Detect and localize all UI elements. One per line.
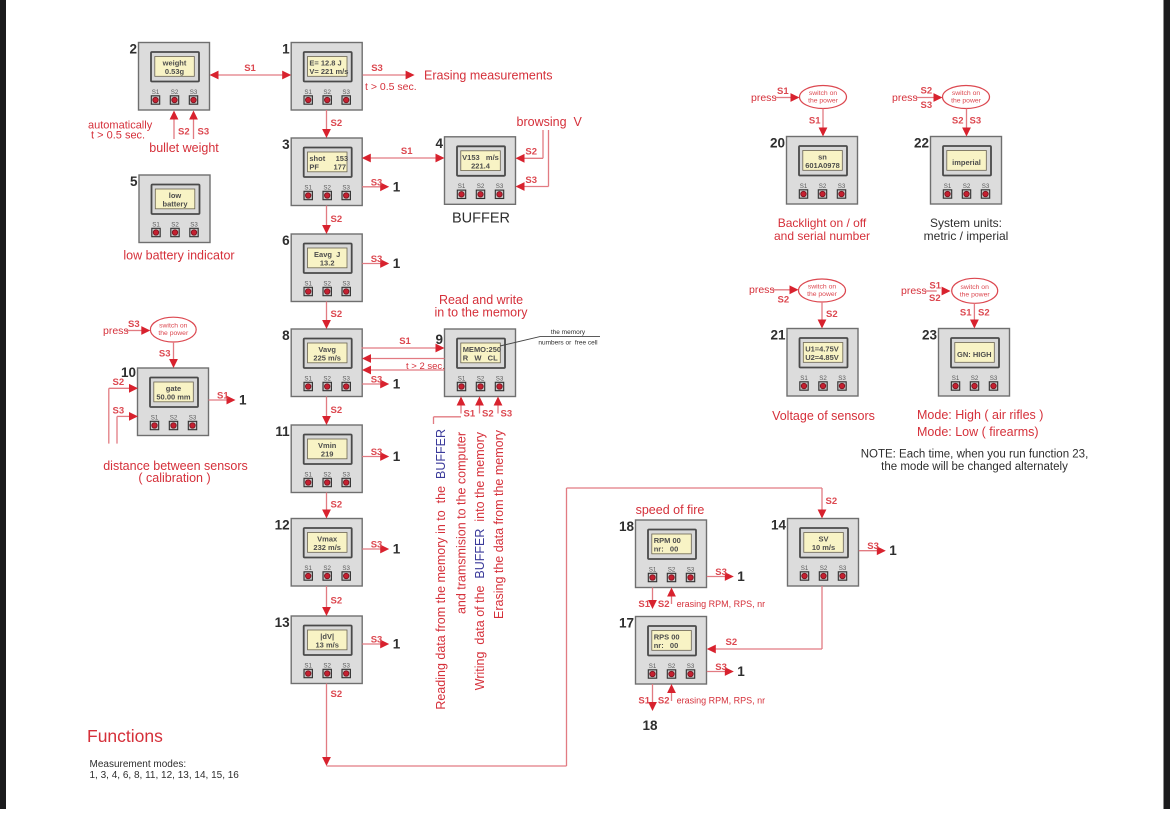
svg-text:1: 1 (282, 42, 290, 57)
svg-text:1: 1 (393, 637, 401, 652)
svg-text:S2: S2 (726, 637, 738, 648)
svg-text:press: press (103, 325, 129, 337)
svg-text:S1: S1 (464, 409, 476, 420)
svg-text:S1: S1 (638, 599, 650, 610)
svg-text:Reading data from the memory i: Reading data from the memory in to the B… (434, 429, 448, 710)
svg-text:S2: S2 (331, 214, 343, 225)
wire browsing S3 into device 4 (548, 130, 550, 187)
svg-text:the power: the power (960, 291, 991, 298)
svg-text:switch on: switch on (952, 90, 981, 97)
arrow S3 to 1 (362, 383, 381, 385)
svg-text:t > 0.5 sec.: t > 0.5 sec. (91, 130, 145, 142)
svg-text:1, 3, 4, 6, 8, 11, 12, 13, 14,: 1, 3, 4, 6, 8, 11, 12, 13, 14, 15, 16 (90, 770, 240, 781)
svg-text:press: press (901, 285, 927, 297)
svg-text:221.4: 221.4 (471, 161, 491, 170)
svg-text:Erasing measurements: Erasing measurements (424, 69, 553, 83)
svg-text:6: 6 (282, 233, 290, 248)
device 3: screen box (291, 138, 362, 206)
svg-text:21: 21 (770, 328, 786, 343)
svg-text:Mode: Low ( firearms): Mode: Low ( firearms) (917, 425, 1039, 439)
svg-text:1: 1 (393, 377, 401, 392)
arrow S3 to 1 (362, 643, 381, 645)
device 5: screen box (139, 175, 210, 243)
device 9: screen box (445, 329, 516, 397)
svg-text:S3: S3 (371, 375, 383, 386)
svg-text:S1: S1 (217, 391, 229, 402)
arrow S3 to 1 (362, 186, 381, 188)
svg-text:erasing RPM, RPS, nr: erasing RPM, RPS, nr (677, 696, 766, 706)
arrow S3 to 1 (859, 550, 878, 552)
svg-text:S2: S2 (331, 309, 343, 320)
arrow S2 into device 14 top (821, 488, 823, 511)
svg-text:8: 8 (282, 328, 290, 343)
svg-text:S2: S2 (525, 147, 537, 158)
svg-text:0.53g: 0.53g (165, 67, 185, 76)
svg-text:S3: S3 (371, 254, 383, 265)
svg-text:Mode: High ( air rifles ): Mode: High ( air rifles ) (917, 408, 1043, 422)
wire S2 device 14 down to 17 (821, 586, 823, 649)
device 12: screen box (291, 519, 362, 587)
wire S2 device 6 to 8 (326, 302, 328, 322)
ellipse switch on the power (20) (800, 86, 847, 109)
svg-text:t > 0.5 sec.: t > 0.5 sec. (365, 81, 417, 93)
svg-text:S3: S3 (921, 100, 933, 111)
arrow S3 erasing measurements (363, 74, 407, 76)
svg-text:System units:: System units: (930, 216, 1002, 230)
svg-text:S3: S3 (525, 175, 537, 186)
svg-text:switch on: switch on (808, 284, 837, 291)
svg-text:Voltage of sensors: Voltage of sensors (772, 409, 875, 423)
svg-text:numbers or free cell: numbers or free cell (538, 340, 598, 347)
svg-text:press: press (749, 284, 775, 296)
svg-text:219: 219 (321, 450, 334, 459)
svg-text:browsing V: browsing V (517, 115, 583, 129)
arrow S3 to 1 (707, 671, 726, 673)
wire S2 device 1 to 3 (326, 110, 328, 130)
svg-text:the power: the power (158, 330, 189, 337)
ellipse switch on the power (22) (943, 86, 990, 109)
svg-text:the power: the power (807, 291, 838, 298)
svg-text:switch on: switch on (159, 323, 188, 330)
svg-text:S2: S2 (331, 596, 343, 607)
svg-text:4: 4 (435, 136, 443, 151)
svg-text:V= 221 m/s: V= 221 m/s (309, 67, 348, 76)
ellipse switch on the power (23) (952, 278, 998, 303)
arrow device 9 to 8 (370, 358, 445, 360)
arrow S1 between device 2 and device 1 (218, 74, 284, 76)
svg-text:imperial: imperial (952, 158, 981, 167)
svg-text:S3: S3 (970, 116, 982, 127)
device 4: screen box (445, 137, 516, 205)
device 17: screen box (636, 617, 707, 685)
svg-text:S1: S1 (809, 116, 821, 127)
svg-text:erasing RPM, RPS, nr: erasing RPM, RPS, nr (677, 599, 766, 609)
ellipse switch on the power (10) (150, 317, 196, 342)
svg-text:S2: S2 (178, 127, 190, 138)
svg-text:1: 1 (889, 543, 897, 558)
svg-text:1: 1 (737, 569, 745, 584)
svg-text:12: 12 (275, 518, 290, 533)
svg-text:S2: S2 (952, 116, 964, 127)
device 2: screen box (139, 43, 210, 111)
svg-text:1: 1 (737, 664, 745, 679)
arrow S1 device 8 to 9 (362, 347, 437, 349)
svg-text:1: 1 (393, 449, 401, 464)
svg-text:S1: S1 (401, 146, 413, 157)
wire S2 device 3 to 6 (326, 206, 328, 227)
arrow S3 to 1 (362, 263, 381, 265)
svg-text:battery: battery (162, 200, 188, 209)
svg-text:11: 11 (275, 424, 290, 439)
svg-text:232 m/s: 232 m/s (313, 543, 341, 552)
device 23: screen box (939, 329, 1010, 397)
svg-text:18: 18 (619, 519, 635, 534)
device 20: screen box (787, 137, 858, 205)
svg-text:the mode will be changed alter: the mode will be changed alternately (881, 461, 1068, 473)
svg-text:GN: HIGH: GN: HIGH (957, 350, 992, 359)
svg-text:NOTE: Each time, when you run: NOTE: Each time, when you run function 2… (861, 449, 1089, 461)
arrow S3 to 1 (362, 456, 381, 458)
svg-text:23: 23 (922, 328, 938, 343)
svg-text:press: press (892, 92, 918, 104)
svg-text:S1: S1 (399, 336, 411, 347)
svg-text:S3: S3 (715, 662, 727, 673)
svg-text:S2: S2 (826, 309, 838, 320)
svg-text:S2: S2 (331, 500, 343, 511)
wire browsing S2 into device 4 (542, 130, 544, 158)
svg-text:S2: S2 (826, 496, 838, 507)
svg-text:50.00 mm: 50.00 mm (156, 393, 191, 402)
svg-text:speed of fire: speed of fire (636, 503, 705, 517)
svg-text:press: press (751, 92, 777, 104)
svg-text:S3: S3 (198, 127, 210, 138)
wire S2 device 11 to 12 (326, 493, 328, 511)
svg-text:2: 2 (129, 42, 137, 57)
device 14: screen box (788, 519, 859, 587)
device 10: screen box (138, 368, 209, 436)
arrow S2 up into device 18 (671, 596, 673, 605)
svg-text:S2: S2 (921, 86, 933, 97)
svg-text:switch on: switch on (809, 90, 838, 97)
svg-text:13 m/s: 13 m/s (316, 641, 339, 650)
device 22: screen box (931, 137, 1002, 205)
svg-text:S1: S1 (638, 696, 650, 707)
svg-text:U2=4.85V: U2=4.85V (805, 353, 839, 362)
svg-text:S2: S2 (658, 696, 670, 707)
arrow t>2sec device 9 to 8 (370, 369, 445, 371)
svg-text:Writing data of the BUFFER: Writing data of the BUFFER into the memo… (473, 431, 487, 690)
svg-text:S3: S3 (371, 540, 383, 551)
svg-text:14: 14 (771, 518, 787, 533)
ellipse switch on the power (21) (799, 279, 846, 302)
bracket to reading column (434, 416, 462, 418)
svg-text:S2: S2 (331, 118, 343, 129)
svg-text:S3: S3 (371, 447, 383, 458)
svg-text:R W CL: R W CL (463, 354, 498, 363)
svg-text:BUFFER: BUFFER (452, 211, 510, 227)
svg-text:S2: S2 (978, 308, 990, 319)
svg-text:metric / imperial: metric / imperial (924, 229, 1009, 243)
svg-text:601A0978: 601A0978 (805, 161, 840, 170)
svg-text:S3: S3 (371, 63, 383, 74)
svg-text:S1: S1 (929, 281, 941, 292)
svg-text:3: 3 (282, 137, 290, 152)
svg-text:bullet weight: bullet weight (149, 141, 219, 155)
svg-text:1: 1 (393, 256, 401, 271)
svg-text:nr: 00: nr: 00 (654, 641, 679, 650)
svg-text:225 m/s: 225 m/s (313, 354, 341, 363)
svg-text:S3: S3 (501, 409, 513, 420)
device 6: screen box (291, 234, 362, 302)
arrow S1 between device 3 and 4 (370, 157, 437, 159)
device 21: screen box (787, 329, 858, 397)
svg-text:Functions: Functions (87, 726, 163, 746)
svg-text:S2: S2 (113, 377, 125, 388)
svg-text:t > 2 sec.: t > 2 sec. (406, 361, 445, 372)
svg-text:nr: 00: nr: 00 (654, 545, 679, 554)
svg-text:( calibration ): ( calibration ) (138, 471, 210, 485)
svg-text:S2: S2 (331, 689, 343, 700)
svg-text:13: 13 (275, 615, 291, 630)
svg-text:switch on: switch on (961, 284, 990, 291)
device 18: screen box (636, 520, 707, 588)
svg-text:the power: the power (951, 98, 982, 105)
svg-text:1: 1 (393, 542, 401, 557)
svg-text:Erasing the data from the memo: Erasing the data from the memory (492, 429, 506, 619)
svg-text:the memory: the memory (551, 329, 586, 336)
svg-text:S3: S3 (128, 319, 140, 330)
svg-text:Measurement modes:: Measurement modes: (90, 759, 187, 770)
svg-text:10 m/s: 10 m/s (812, 543, 835, 552)
svg-text:PF 177: PF 177 (309, 163, 346, 172)
svg-text:S2: S2 (778, 295, 790, 306)
arrow S3 to 1 (362, 548, 381, 550)
device 11: screen box (291, 425, 362, 493)
wire S2 device 12 to 13 (326, 586, 328, 608)
svg-text:S2: S2 (482, 409, 494, 420)
svg-text:1: 1 (239, 393, 247, 408)
arrows S2 S3 up into device 2 (173, 119, 175, 140)
svg-text:S3: S3 (371, 177, 383, 188)
arrows S1 S2 S3 up into device 9 (460, 405, 462, 414)
svg-text:low battery indicator: low battery indicator (123, 249, 234, 263)
svg-text:5: 5 (130, 174, 138, 189)
svg-text:S3: S3 (867, 541, 879, 552)
svg-text:S1: S1 (777, 86, 789, 97)
note line: the memory numbers or free cell (500, 337, 600, 346)
device 13: screen box (291, 616, 362, 684)
right black bar (1164, 0, 1170, 809)
svg-text:S1: S1 (960, 308, 972, 319)
svg-text:the power: the power (808, 98, 839, 105)
svg-text:S2: S2 (658, 599, 670, 610)
svg-text:in to the memory: in to the memory (434, 306, 528, 320)
arrow S3 to 1 (707, 576, 726, 578)
device 8: screen box (291, 329, 362, 397)
svg-text:and serial number: and serial number (774, 229, 870, 243)
svg-text:S1: S1 (244, 63, 256, 74)
svg-text:22: 22 (914, 136, 929, 151)
svg-text:and tramsmision to the compute: and tramsmision to the computer (455, 432, 469, 614)
svg-text:S3: S3 (113, 406, 125, 417)
arrow S2 up into device 17 (671, 692, 673, 701)
svg-text:S3: S3 (715, 567, 727, 578)
wire S2 device 8 to 11 (326, 397, 328, 418)
svg-text:S3: S3 (159, 349, 171, 360)
svg-text:S3: S3 (371, 635, 383, 646)
arrow S1 to 1 (209, 399, 228, 401)
svg-text:17: 17 (619, 616, 634, 631)
svg-text:S2: S2 (929, 293, 941, 304)
svg-text:Backlight on / off: Backlight on / off (778, 216, 867, 230)
svg-text:S2: S2 (331, 405, 343, 416)
arrow S1 down from device 17 (652, 684, 654, 703)
device 1: screen box (291, 43, 362, 111)
svg-text:13.2: 13.2 (320, 259, 335, 268)
arrow S1 down from device 18 (652, 588, 654, 602)
svg-text:1: 1 (393, 179, 401, 194)
svg-text:20: 20 (770, 136, 785, 151)
left black bar (0, 0, 6, 809)
svg-text:18: 18 (642, 718, 658, 733)
